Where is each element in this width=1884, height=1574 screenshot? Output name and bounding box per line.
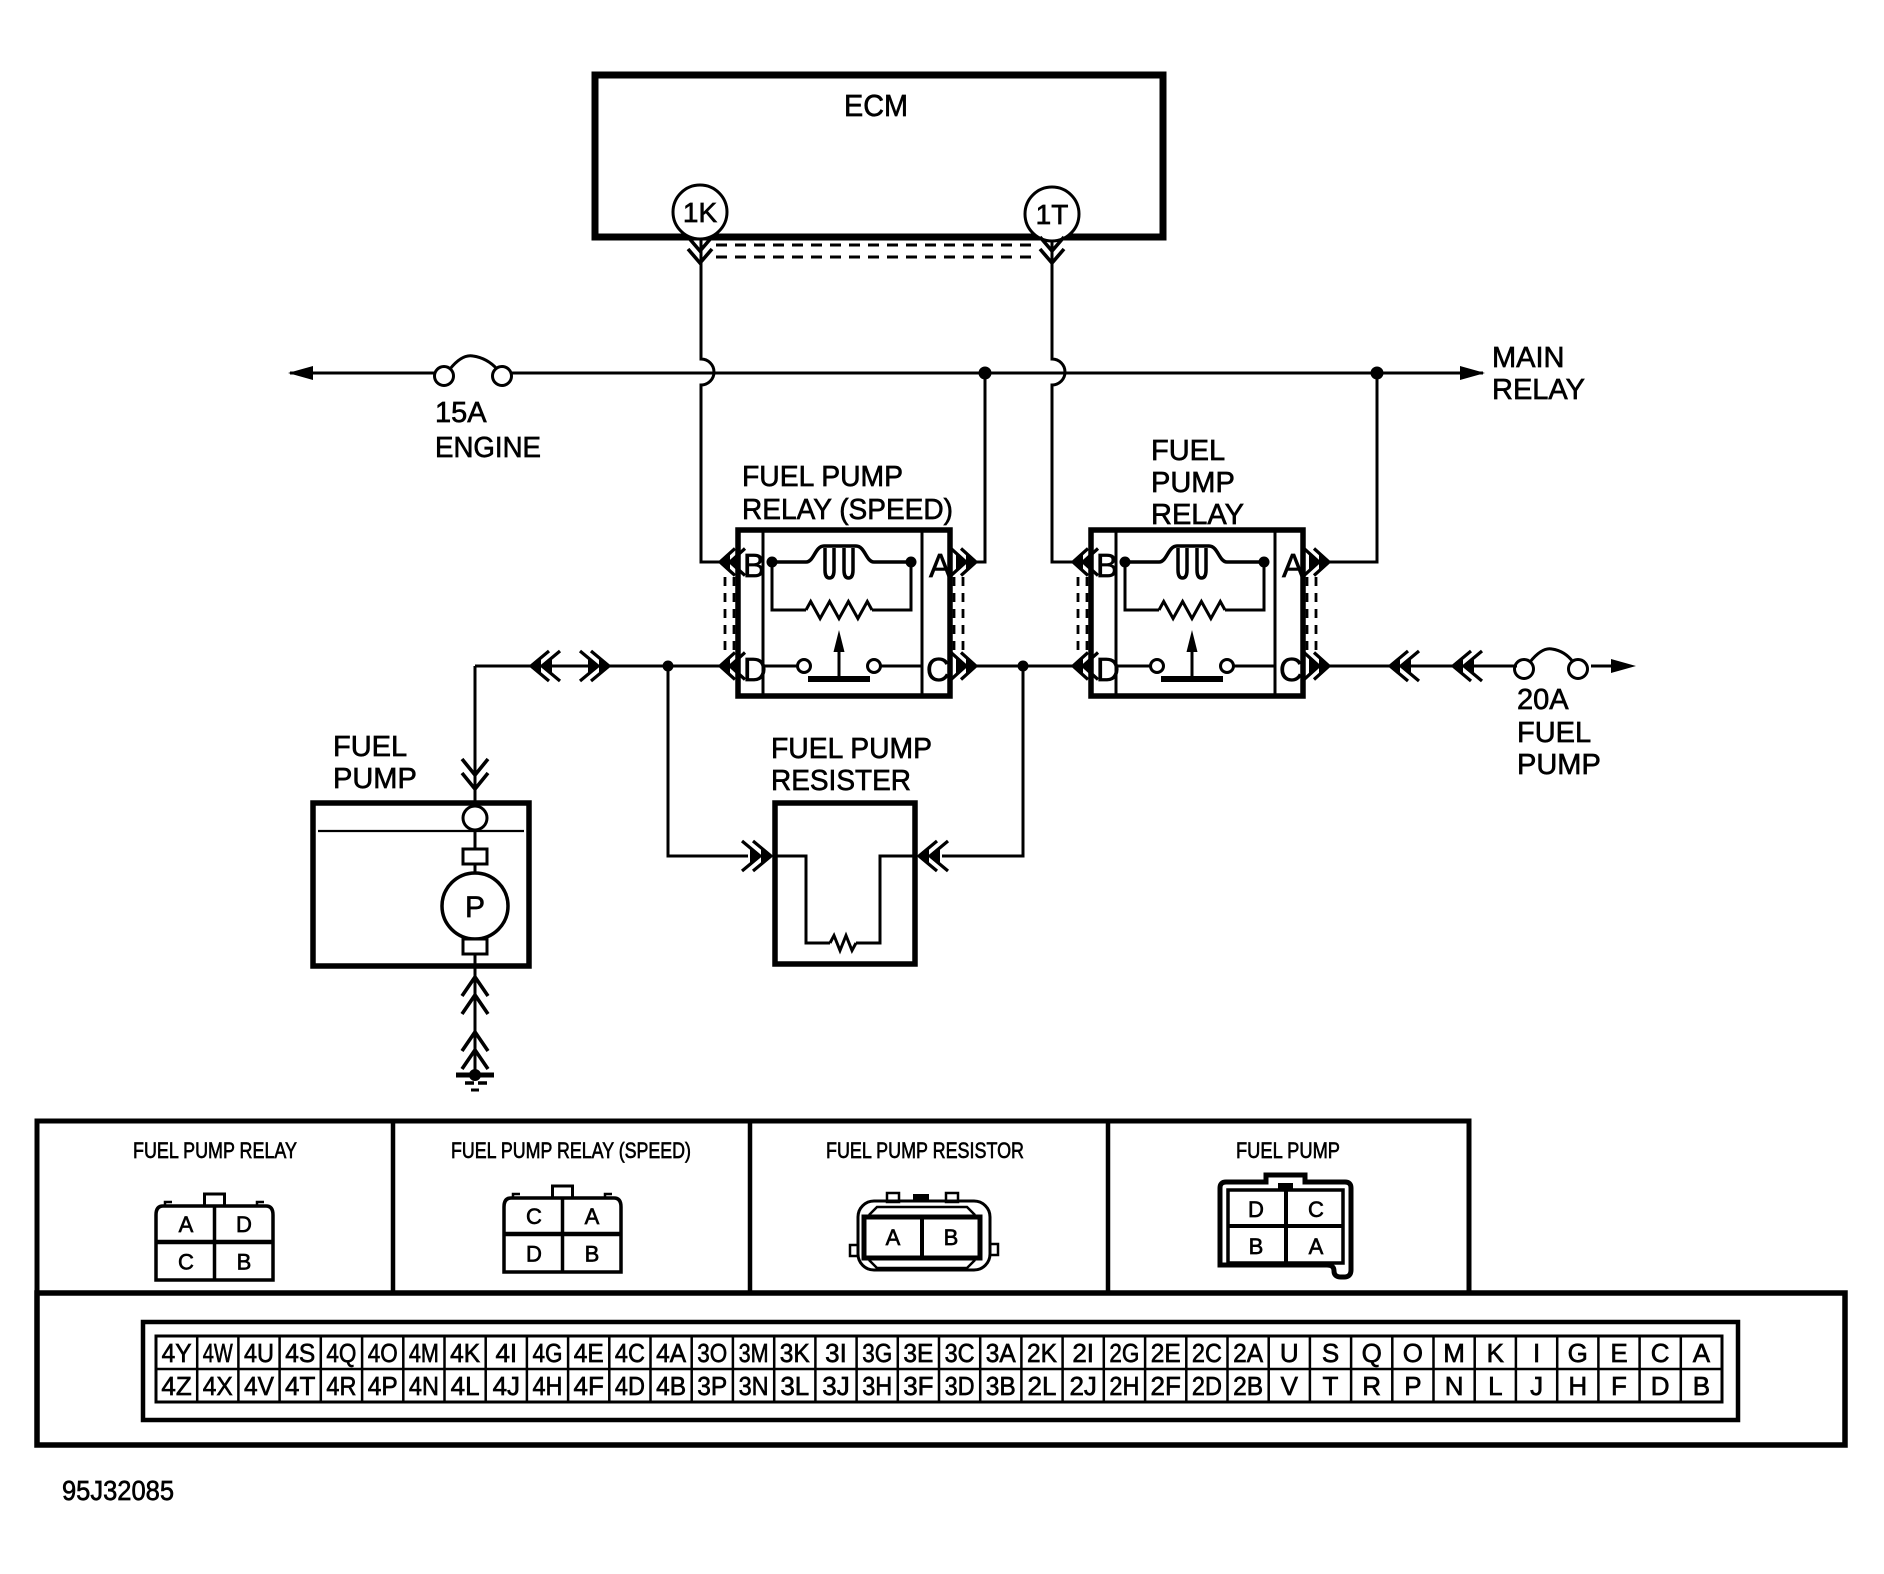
svg-text:B: B bbox=[1096, 547, 1118, 584]
fuel pump relay connector pin A (top-left) bbox=[179, 1212, 194, 1237]
relay K2 fuel pump relay coil node B bbox=[1120, 557, 1131, 568]
arrowhead right (to MAIN RELAY) bbox=[1460, 366, 1485, 380]
svg-text:2D: 2D bbox=[1192, 1371, 1222, 1401]
label: MAIN RELAY bbox=[1492, 342, 1585, 406]
fuel pump connector pin C (top-right) bbox=[1308, 1197, 1324, 1222]
svg-text:C: C bbox=[178, 1250, 194, 1275]
svg-text:E: E bbox=[1610, 1338, 1627, 1368]
svg-text:RESISTER: RESISTER bbox=[771, 765, 911, 797]
svg-text:4W: 4W bbox=[203, 1338, 233, 1368]
svg-text:3C: 3C bbox=[945, 1338, 975, 1368]
node: junction main feed / fuel pump relay pin A branch bbox=[1371, 367, 1384, 380]
svg-text:D: D bbox=[1248, 1197, 1264, 1222]
svg-text:4S: 4S bbox=[285, 1338, 315, 1368]
svg-text:B: B bbox=[944, 1225, 959, 1250]
svg-text:4Q: 4Q bbox=[326, 1338, 356, 1368]
relay K2 fuel pump relay pin D bbox=[1096, 651, 1120, 688]
wire: brush to motor bbox=[474, 864, 477, 873]
node: junction fuel pump wire / resistor branch bbox=[663, 661, 674, 672]
arrowhead to 20A FUEL PUMP fuse bbox=[1611, 659, 1636, 673]
svg-text:RELAY: RELAY bbox=[1492, 374, 1585, 406]
svg-text:C: C bbox=[1308, 1197, 1324, 1222]
connector drawing: fuel pump connector bbox=[1220, 1175, 1351, 1277]
svg-text:3P: 3P bbox=[697, 1371, 727, 1401]
node: junction relay wire / resistor branch bbox=[1018, 661, 1029, 672]
relay K2 fuel pump relay pin B bbox=[1096, 547, 1118, 584]
svg-text:4A: 4A bbox=[656, 1338, 687, 1368]
svg-text:T: T bbox=[1323, 1371, 1339, 1401]
relay K2 fuel pump relay connector chevrons pin C bbox=[1304, 653, 1329, 680]
svg-text:A: A bbox=[1309, 1234, 1324, 1259]
connector chevrons on 20A fuse wire (pair 2) bbox=[1453, 651, 1482, 681]
svg-text:4Y: 4Y bbox=[162, 1338, 192, 1368]
relay K1 fuel pump relay (speed) connector chevrons pin C bbox=[951, 653, 976, 680]
relay K1 fuel pump relay (speed) internal resistor bbox=[772, 562, 911, 619]
svg-text:S: S bbox=[1322, 1338, 1339, 1368]
fuel pump resistor connector pin B bbox=[944, 1225, 959, 1250]
svg-text:3N: 3N bbox=[739, 1371, 769, 1401]
svg-text:F: F bbox=[1611, 1371, 1627, 1401]
svg-text:2L: 2L bbox=[1028, 1371, 1057, 1401]
resistor R1 internal element bbox=[775, 856, 915, 951]
svg-text:H: H bbox=[1568, 1371, 1587, 1401]
label: FUEL PUMP RELAY bbox=[1151, 435, 1244, 531]
svg-text:2B: 2B bbox=[1233, 1371, 1263, 1401]
relay K1 fuel pump relay (speed) pin D bbox=[743, 651, 767, 688]
svg-text:4U: 4U bbox=[244, 1338, 274, 1368]
svg-text:B: B bbox=[1693, 1371, 1710, 1401]
ECM connector pin labels row 2 bbox=[161, 1371, 1710, 1401]
wire: relay (speed) pin C to relay pin D bbox=[962, 665, 1073, 668]
wire: motor to ground bbox=[474, 954, 477, 1075]
svg-text:2E: 2E bbox=[1151, 1338, 1181, 1368]
fuel pump relay (speed) connector pin A (top-right) bbox=[585, 1204, 600, 1229]
relay K1 fuel pump relay (speed) connector dashed boundary left bbox=[725, 577, 734, 651]
connector chevrons below fuel pump (pair 2) bbox=[462, 1032, 488, 1069]
svg-text:PUMP: PUMP bbox=[333, 763, 417, 795]
svg-text:1K: 1K bbox=[683, 197, 718, 228]
label: 15A ENGINE bbox=[435, 397, 541, 464]
wire: down from junction into fuel pump bbox=[474, 666, 477, 806]
svg-text:4T: 4T bbox=[285, 1371, 315, 1401]
resistor R1 fuel pump resister box bbox=[775, 803, 915, 964]
svg-text:B: B bbox=[1249, 1234, 1264, 1259]
svg-text:MAIN: MAIN bbox=[1492, 342, 1565, 374]
svg-text:4V: 4V bbox=[244, 1371, 275, 1401]
table header: FUEL PUMP bbox=[1236, 1138, 1340, 1163]
connector chevrons at resistor pin B bbox=[919, 841, 948, 871]
svg-text:4X: 4X bbox=[203, 1371, 233, 1401]
svg-text:PUMP: PUMP bbox=[1517, 749, 1601, 781]
svg-text:2C: 2C bbox=[1192, 1338, 1222, 1368]
svg-text:B: B bbox=[237, 1250, 252, 1275]
svg-text:3K: 3K bbox=[780, 1338, 811, 1368]
svg-text:C: C bbox=[526, 1204, 542, 1229]
svg-text:3E: 3E bbox=[903, 1338, 933, 1368]
fuel pump relay (speed) connector pin D (bottom-left) bbox=[526, 1242, 542, 1267]
svg-text:4Z: 4Z bbox=[161, 1371, 191, 1401]
svg-text:4N: 4N bbox=[409, 1371, 439, 1401]
svg-text:2J: 2J bbox=[1069, 1371, 1096, 1401]
svg-text:4P: 4P bbox=[368, 1371, 398, 1401]
svg-text:G: G bbox=[1568, 1338, 1588, 1368]
fuse F2 20A FUEL PUMP bbox=[1515, 649, 1588, 679]
svg-text:3D: 3D bbox=[945, 1371, 975, 1401]
svg-text:FUEL PUMP: FUEL PUMP bbox=[742, 461, 903, 493]
svg-text:4G: 4G bbox=[533, 1338, 563, 1368]
relay K1 fuel pump relay (speed) armature arrow bbox=[808, 630, 870, 679]
motor brush (bottom) bbox=[463, 939, 487, 954]
svg-text:3O: 3O bbox=[697, 1338, 727, 1368]
svg-text:4I: 4I bbox=[495, 1338, 517, 1368]
fuel pump relay connector pin D (top-right) bbox=[236, 1212, 252, 1237]
svg-text:3B: 3B bbox=[986, 1371, 1016, 1401]
svg-text:4M: 4M bbox=[409, 1338, 439, 1368]
svg-text:2F: 2F bbox=[1151, 1371, 1181, 1401]
svg-text:4R: 4R bbox=[326, 1371, 356, 1401]
connector chevrons at ECM pin 1K bbox=[688, 237, 712, 263]
svg-text:FUEL PUMP RELAY: FUEL PUMP RELAY bbox=[133, 1138, 297, 1163]
relay K1 fuel pump relay (speed) coil bbox=[772, 546, 911, 578]
svg-text:RELAY (SPEED): RELAY (SPEED) bbox=[742, 494, 953, 526]
wire: fuel pump to relay (speed) pin D with in-line connector bbox=[475, 665, 720, 668]
svg-text:4K: 4K bbox=[450, 1338, 481, 1368]
relay K2 fuel pump relay coil node A bbox=[1259, 557, 1270, 568]
svg-text:2A: 2A bbox=[1233, 1338, 1264, 1368]
svg-text:4O: 4O bbox=[368, 1338, 398, 1368]
fuel pump connector pin D (top-left) bbox=[1248, 1197, 1264, 1222]
fuel pump connector pin B (bottom-left) bbox=[1249, 1234, 1264, 1259]
connector drawing: fuel pump relay (speed) connector bbox=[504, 1186, 621, 1272]
wire: branch from main feed down to fuel pump relay pin A bbox=[1315, 373, 1377, 562]
svg-text:3F: 3F bbox=[903, 1371, 933, 1401]
svg-text:I: I bbox=[1533, 1338, 1540, 1368]
motor brush (top) bbox=[463, 849, 487, 864]
svg-text:4B: 4B bbox=[656, 1371, 686, 1401]
relay K1 fuel pump relay (speed) pin C bbox=[926, 651, 950, 688]
svg-text:D: D bbox=[1096, 651, 1120, 688]
svg-text:A: A bbox=[1693, 1338, 1711, 1368]
relay K2 fuel pump relay coil bbox=[1125, 546, 1264, 578]
wire: branch from main feed down to fuel pump relay (speed) pin A bbox=[962, 373, 985, 562]
svg-text:4F: 4F bbox=[574, 1371, 604, 1401]
wire: relay pin C to 20A FUEL PUMP fuse bbox=[1315, 665, 1614, 668]
svg-text:4J: 4J bbox=[493, 1371, 520, 1401]
label: FUEL PUMP RESISTER bbox=[771, 733, 932, 797]
ECM connector pin labels row 1 bbox=[162, 1338, 1711, 1368]
svg-text:4E: 4E bbox=[574, 1338, 604, 1368]
svg-text:3M: 3M bbox=[739, 1338, 769, 1368]
connector chevrons at ECM pin 1T bbox=[1040, 237, 1064, 263]
fuel pump relay connector pin B (bottom-right) bbox=[237, 1250, 252, 1275]
connector chevrons below fuel pump (pair 1) bbox=[462, 977, 488, 1014]
svg-text:3J: 3J bbox=[822, 1371, 849, 1401]
svg-text:B: B bbox=[743, 547, 765, 584]
svg-text:M: M bbox=[1443, 1338, 1465, 1368]
svg-text:4L: 4L bbox=[451, 1371, 480, 1401]
svg-text:FUEL PUMP RELAY (SPEED): FUEL PUMP RELAY (SPEED) bbox=[451, 1138, 691, 1163]
relay K2 fuel pump relay connector dashed boundary left bbox=[1078, 577, 1087, 651]
relay K2 fuel pump relay connector dashed boundary right bbox=[1307, 577, 1316, 651]
relay K1 fuel pump relay (speed) pin A bbox=[929, 547, 951, 584]
relay K1 fuel pump relay (speed) coil node A bbox=[906, 557, 917, 568]
svg-text:3L: 3L bbox=[780, 1371, 809, 1401]
relay K1 fuel pump relay (speed) pin B bbox=[743, 547, 765, 584]
svg-text:D: D bbox=[526, 1242, 542, 1267]
ground bbox=[456, 1069, 494, 1090]
fuel pump M1 box bbox=[313, 803, 529, 966]
fuse F1 15A ENGINE bbox=[435, 356, 512, 386]
svg-text:FUEL PUMP: FUEL PUMP bbox=[771, 733, 932, 765]
in-line connector chevrons (male half) bbox=[580, 651, 609, 681]
svg-text:L: L bbox=[1488, 1371, 1502, 1401]
svg-text:4D: 4D bbox=[615, 1371, 645, 1401]
arrowhead left (to 15A ENGINE fuse supply) bbox=[288, 366, 313, 380]
fuel pump resistor connector pin A bbox=[886, 1225, 901, 1250]
svg-text:A: A bbox=[585, 1204, 600, 1229]
relay K1 fuel pump relay (speed) switch contacts bbox=[763, 660, 922, 673]
relay K2 fuel pump relay connector chevrons pin D bbox=[1073, 653, 1098, 680]
relay K1 fuel pump relay (speed) connector chevrons pin D bbox=[720, 653, 745, 680]
svg-text:N: N bbox=[1445, 1371, 1464, 1401]
table header: FUEL PUMP RELAY (SPEED) bbox=[451, 1138, 691, 1163]
connector chevrons at fuel pump supply bbox=[462, 759, 488, 789]
relay K1 fuel pump relay (speed) connector chevrons pin B bbox=[720, 549, 745, 576]
connector identification table frame bbox=[37, 1121, 1469, 1293]
relay K2 fuel pump relay internal resistor bbox=[1125, 562, 1264, 619]
fuel pump relay connector pin C (bottom-left) bbox=[178, 1250, 194, 1275]
svg-text:D: D bbox=[743, 651, 767, 688]
svg-text:FUEL PUMP RESISTOR: FUEL PUMP RESISTOR bbox=[826, 1138, 1024, 1163]
label: 20A FUEL PUMP bbox=[1517, 684, 1601, 781]
label: FUEL PUMP RELAY (SPEED) bbox=[742, 461, 953, 526]
svg-text:B: B bbox=[585, 1242, 600, 1267]
table header: FUEL PUMP RELAY bbox=[133, 1138, 297, 1163]
svg-text:V: V bbox=[1281, 1371, 1299, 1401]
svg-text:3A: 3A bbox=[986, 1338, 1017, 1368]
svg-text:FUEL: FUEL bbox=[333, 731, 407, 763]
svg-text:A: A bbox=[1282, 547, 1304, 584]
ECM connector outline bbox=[143, 1322, 1738, 1420]
ECM pin 1K bbox=[673, 185, 727, 239]
table header: FUEL PUMP RESISTOR bbox=[826, 1138, 1024, 1163]
relay K2 fuel pump relay pin A bbox=[1282, 547, 1304, 584]
relay K2 fuel pump relay pin C bbox=[1279, 651, 1303, 688]
svg-text:C: C bbox=[1651, 1338, 1670, 1368]
connector chevrons on 20A fuse wire (pair 1) bbox=[1390, 651, 1419, 681]
svg-text:95J32085: 95J32085 bbox=[62, 1475, 174, 1506]
svg-text:PUMP: PUMP bbox=[1151, 467, 1235, 499]
wire: terminal to motor brush bbox=[474, 830, 477, 849]
svg-text:20A: 20A bbox=[1517, 684, 1569, 716]
relay K2 fuel pump relay connector chevrons pin B bbox=[1073, 549, 1098, 576]
svg-text:2I: 2I bbox=[1072, 1338, 1094, 1368]
svg-text:2G: 2G bbox=[1109, 1338, 1139, 1368]
relay K1 fuel pump relay (speed) box bbox=[738, 530, 950, 696]
svg-text:4H: 4H bbox=[533, 1371, 563, 1401]
svg-text:15A: 15A bbox=[435, 397, 487, 429]
relay K1 fuel pump relay (speed) coil node B bbox=[767, 557, 778, 568]
fuel pump relay (speed) connector pin C (top-left) bbox=[526, 1204, 542, 1229]
wire: ECM 1K down to fuel pump relay (speed) pin B (hops over main relay feed) bbox=[701, 239, 720, 562]
svg-text:C: C bbox=[926, 651, 950, 688]
fuel pump relay (speed) connector pin B (bottom-right) bbox=[585, 1242, 600, 1267]
svg-text:1T: 1T bbox=[1036, 199, 1069, 230]
ECM connector panel frame bbox=[37, 1293, 1845, 1445]
ECM connector pin grid bbox=[156, 1336, 1722, 1402]
connector drawing: fuel pump relay connector bbox=[156, 1194, 273, 1280]
label: FUEL PUMP bbox=[333, 731, 417, 795]
svg-text:ENGINE: ENGINE bbox=[435, 432, 541, 464]
ECM box U1 bbox=[595, 75, 1163, 237]
svg-text:FUEL: FUEL bbox=[1151, 435, 1225, 467]
svg-text:A: A bbox=[886, 1225, 901, 1250]
svg-text:A: A bbox=[179, 1212, 194, 1237]
svg-text:A: A bbox=[929, 547, 951, 584]
wire: resistor branch right (resistor pin B up to junction) bbox=[942, 666, 1023, 856]
svg-text:U: U bbox=[1280, 1338, 1299, 1368]
svg-text:FUEL PUMP: FUEL PUMP bbox=[1236, 1138, 1340, 1163]
svg-text:RELAY: RELAY bbox=[1151, 499, 1244, 531]
svg-text:3G: 3G bbox=[862, 1338, 892, 1368]
document number 95J32085 bbox=[62, 1475, 174, 1506]
wire: ECM 1T down to fuel pump relay pin B (hops over main relay feed) bbox=[1052, 241, 1073, 562]
relay K2 fuel pump relay box bbox=[1091, 530, 1303, 696]
connector chevrons at resistor pin A bbox=[742, 841, 771, 871]
relay K1 fuel pump relay (speed) connector dashed boundary right bbox=[954, 577, 963, 651]
ECM pin 1T bbox=[1025, 187, 1079, 241]
in-line connector chevrons (female half) bbox=[531, 651, 560, 681]
svg-text:Q: Q bbox=[1362, 1338, 1382, 1368]
motor M1 (P) bbox=[442, 873, 508, 939]
svg-text:P: P bbox=[465, 891, 485, 924]
svg-text:3I: 3I bbox=[825, 1338, 847, 1368]
connector drawing: fuel pump resistor connector bbox=[850, 1193, 998, 1270]
svg-text:K: K bbox=[1487, 1338, 1505, 1368]
svg-text:D: D bbox=[1651, 1371, 1670, 1401]
svg-text:C: C bbox=[1279, 651, 1303, 688]
svg-text:ECM: ECM bbox=[844, 88, 908, 123]
wire: resistor branch left (down from junction, right to resistor pin A) bbox=[668, 666, 748, 856]
relay K1 fuel pump relay (speed) connector chevrons pin A bbox=[951, 549, 976, 576]
svg-text:O: O bbox=[1403, 1338, 1423, 1368]
svg-text:FUEL: FUEL bbox=[1517, 717, 1591, 749]
svg-text:2H: 2H bbox=[1109, 1371, 1139, 1401]
wire: battery feed from 15A ENGINE fuse to MAIN RELAY bbox=[290, 372, 1483, 375]
dashed harness boundary between 1K and 1T bbox=[716, 245, 1036, 257]
node: junction main feed / relay (speed) pin A branch bbox=[979, 367, 992, 380]
svg-text:3H: 3H bbox=[862, 1371, 892, 1401]
fuel pump connector pin A (bottom-right) bbox=[1309, 1234, 1324, 1259]
relay K2 fuel pump relay connector chevrons pin A bbox=[1304, 549, 1329, 576]
svg-text:P: P bbox=[1404, 1371, 1421, 1401]
relay K2 fuel pump relay armature arrow bbox=[1161, 630, 1223, 679]
relay K2 fuel pump relay switch contacts bbox=[1116, 660, 1275, 673]
svg-text:D: D bbox=[236, 1212, 252, 1237]
fuel pump inlet terminal bbox=[463, 806, 487, 830]
svg-text:2K: 2K bbox=[1027, 1338, 1058, 1368]
svg-text:R: R bbox=[1362, 1371, 1381, 1401]
svg-text:4C: 4C bbox=[615, 1338, 645, 1368]
svg-text:J: J bbox=[1530, 1371, 1543, 1401]
